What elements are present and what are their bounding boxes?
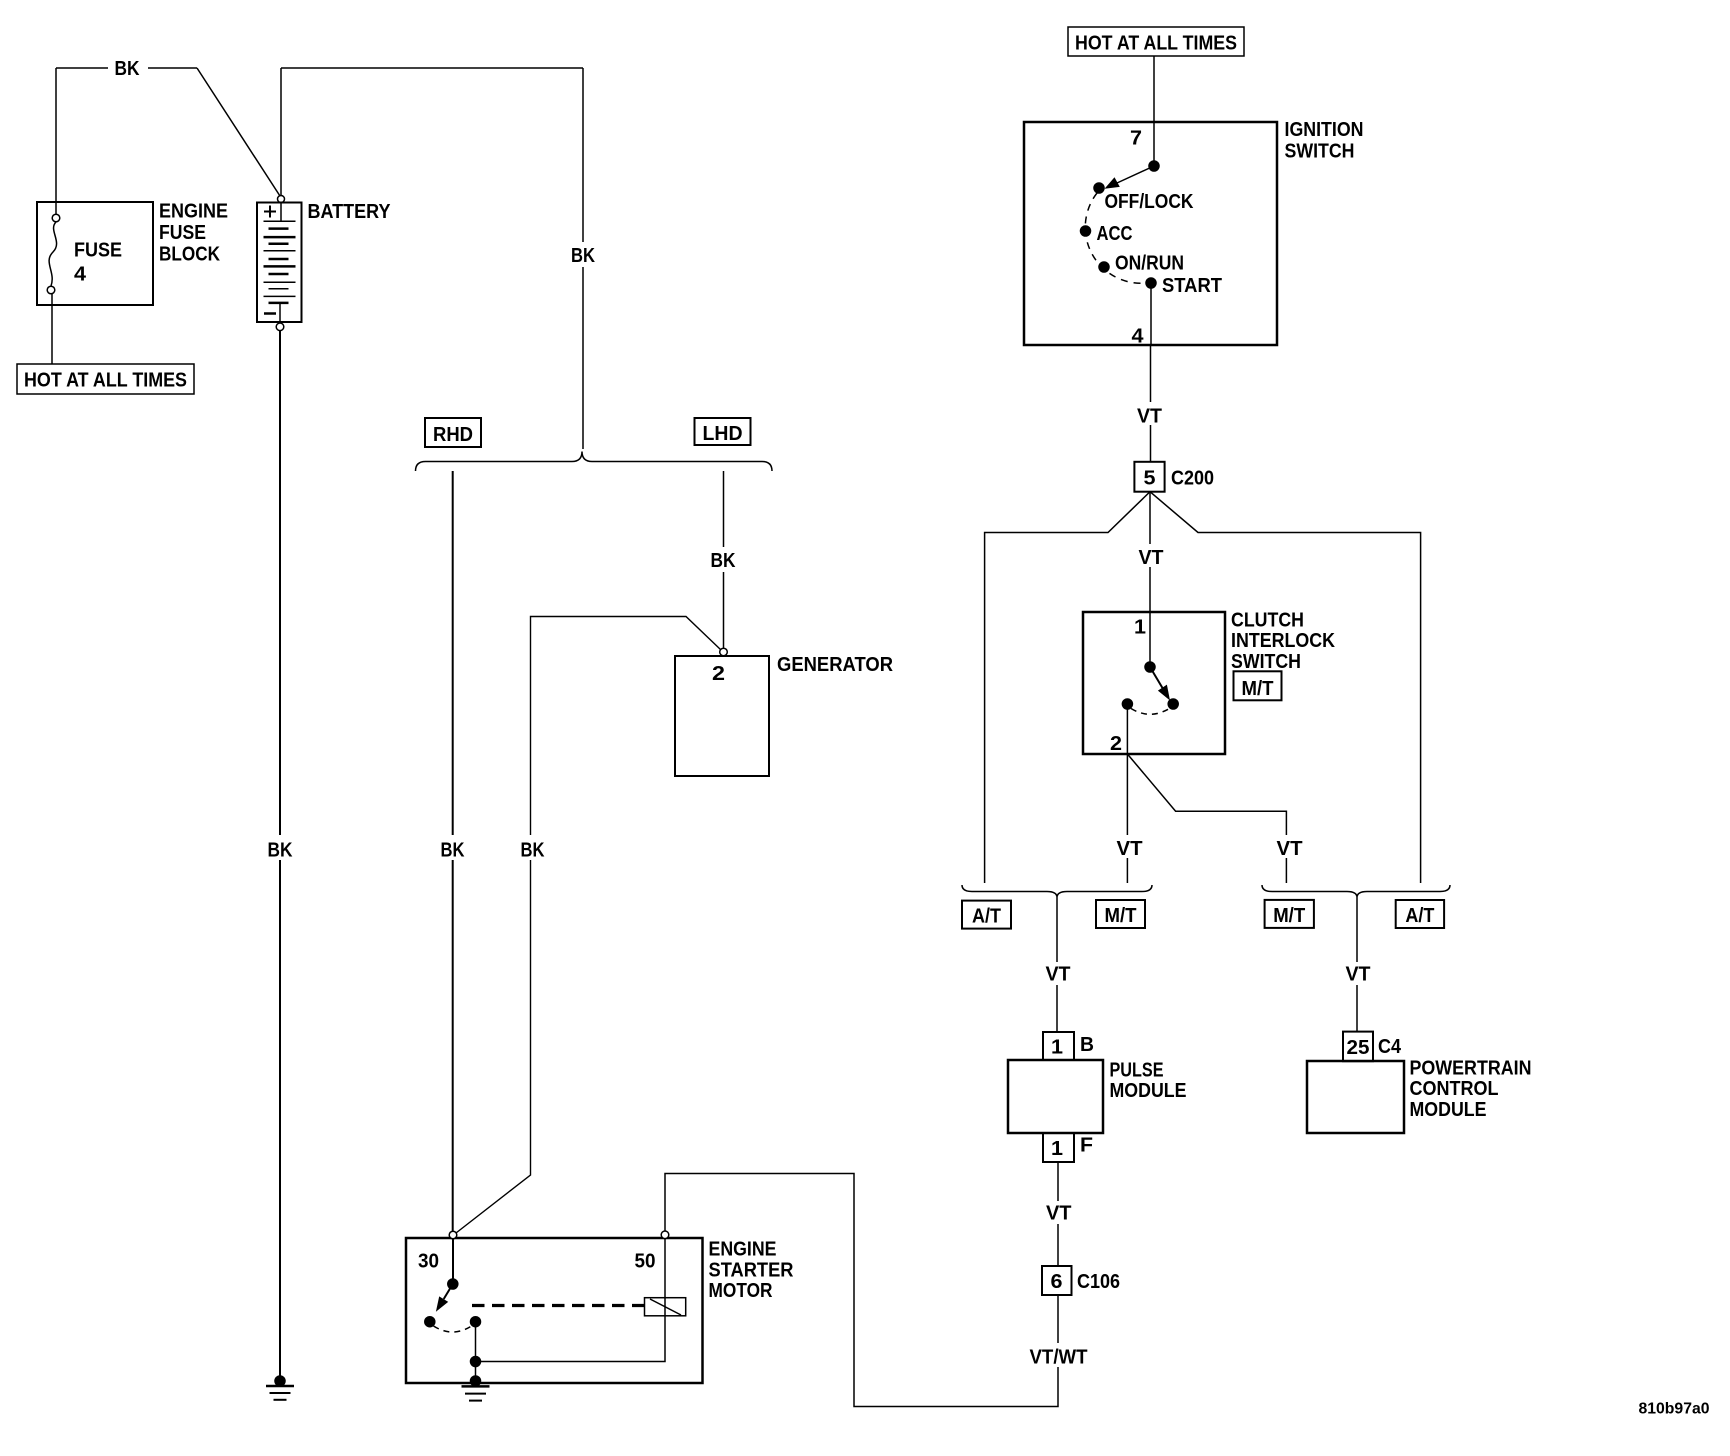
wire pulse module to C106 (1057, 1162, 1059, 1266)
svg-text:STARTER: STARTER (709, 1260, 795, 1282)
wire starter pin 50 internal (476, 1238, 666, 1362)
ignition travel dashed arc (1085, 193, 1147, 283)
connector C106 pin 6 (1042, 1266, 1072, 1295)
svg-text:4: 4 (74, 264, 87, 286)
svg-text:2: 2 (1110, 733, 1122, 755)
node starter contact top (448, 1279, 458, 1289)
svg-text:ACC: ACC (1097, 223, 1133, 245)
wire label VT clutch M/T (1112, 835, 1146, 858)
engine fuse block box (37, 202, 153, 305)
svg-text:POWERTRAIN: POWERTRAIN (1410, 1058, 1532, 1080)
svg-text:INTERLOCK: INTERLOCK (1231, 630, 1335, 652)
svg-text:C106: C106 (1077, 1271, 1120, 1293)
wire label BK RHD branch (435, 835, 471, 860)
wire right vertical drop to RHD/LHD brace (BK) (582, 68, 584, 449)
svg-text:A/T: A/T (1405, 905, 1434, 927)
wire label BK right drop (565, 242, 601, 267)
svg-text:LHD: LHD (703, 423, 743, 445)
wire top horizontal from battery positive to right drop (281, 67, 583, 69)
wire label BK top (108, 57, 148, 78)
svg-text:BK: BK (441, 840, 465, 862)
battery B1 (278, 196, 285, 203)
node M/T tag clutch (1234, 671, 1282, 700)
svg-text:C200: C200 (1171, 468, 1214, 490)
node M/T tag right (1265, 900, 1314, 928)
node starter fixed contact (471, 1317, 481, 1327)
node HOT AT ALL TIMES box top (1068, 27, 1244, 56)
wire START output to C200 (1150, 283, 1152, 345)
starter travel dashed arc (434, 1326, 472, 1332)
node starter junction (471, 1357, 481, 1367)
svg-text:PULSE: PULSE (1110, 1060, 1164, 1082)
svg-text:BATTERY: BATTERY (308, 201, 392, 223)
svg-text:2: 2 (712, 663, 725, 685)
svg-text:VT: VT (1346, 964, 1371, 986)
wire C200 left branch to A/T (985, 492, 1150, 883)
wire battery negative to ground (279, 331, 281, 1377)
node starter pin 30 terminal (449, 1231, 457, 1239)
node ignition common (1149, 161, 1159, 171)
wire label VT pcm feed (1341, 962, 1375, 985)
node ON/RUN contact (1099, 262, 1109, 272)
svg-text:SWITCH: SWITCH (1285, 141, 1355, 163)
wire starter pin 30 internal (452, 1238, 454, 1280)
svg-text:FUSE: FUSE (74, 240, 122, 262)
node A/T tag right (1396, 900, 1444, 928)
wire fuse to hot-at-all-times tag (51, 294, 53, 364)
svg-text:ENGINE: ENGINE (709, 1239, 777, 1261)
svg-text:VT/WT: VT/WT (1030, 1347, 1088, 1369)
svg-text:5: 5 (1144, 468, 1156, 490)
wire RHD branch down to starter pin 30 (452, 471, 454, 1232)
svg-text:VT: VT (1139, 547, 1164, 569)
generator (720, 648, 728, 656)
svg-text:M/T: M/T (1105, 905, 1137, 927)
wire fuse feed vertical (55, 68, 57, 214)
wire battery positive vertical stub (280, 68, 282, 195)
svg-text:SWITCH: SWITCH (1231, 651, 1301, 673)
clutch interlock switch box (1083, 612, 1225, 754)
svg-text:CLUTCH: CLUTCH (1231, 610, 1304, 632)
svg-text:M/T: M/T (1242, 678, 1274, 700)
svg-text:GENERATOR: GENERATOR (777, 654, 894, 676)
connector pin 25 C4 pcm (1343, 1032, 1373, 1062)
pulse module box (1008, 1060, 1103, 1133)
svg-text:MODULE: MODULE (1410, 1099, 1487, 1121)
wire hot feed into ignition switch pin 7 (1153, 56, 1155, 166)
svg-text:30: 30 (418, 1251, 439, 1273)
svg-text:OFF/LOCK: OFF/LOCK (1105, 191, 1194, 213)
svg-text:50: 50 (635, 1251, 656, 1273)
node starter moving contact (425, 1317, 435, 1327)
svg-text:25: 25 (1347, 1037, 1370, 1059)
wire clutch pin 2 to right M/T branch (1127, 754, 1286, 883)
svg-text:6: 6 (1051, 1271, 1063, 1293)
wire starter contact to ground (475, 1322, 477, 1381)
svg-text:CONTROL: CONTROL (1410, 1078, 1499, 1100)
wire label BK LHD branch (705, 547, 742, 572)
wire C200 to clutch interlock pin 1 (1149, 492, 1151, 662)
wire battery feed top-left horizontal (BK) (56, 67, 197, 69)
svg-text:A/T: A/T (972, 906, 1001, 928)
wire label VT below C200 (1134, 544, 1168, 567)
svg-text:VT: VT (1277, 838, 1303, 860)
svg-text:B: B (1080, 1034, 1094, 1056)
node START contact (1146, 278, 1156, 288)
svg-text:BK: BK (115, 58, 140, 80)
ground G2 starter (471, 1376, 481, 1386)
wire merged to powertrain control module (1356, 898, 1358, 1032)
node clutch moving contact (1168, 699, 1178, 709)
svg-text:BK: BK (571, 245, 595, 267)
svg-text:810b97a0: 810b97a0 (1639, 1401, 1710, 1418)
svg-text:ON/RUN: ON/RUN (1115, 253, 1184, 275)
wire diagonal from BK run to battery positive (197, 68, 280, 196)
wire C200 right branch to A/T (1150, 492, 1421, 883)
connector pin 1 B pulse module (1043, 1032, 1074, 1060)
powertrain control module box (1307, 1061, 1404, 1133)
node A/T tag left (962, 901, 1011, 929)
relay coil starter solenoid (645, 1298, 686, 1316)
node starter pin 50 terminal (661, 1231, 669, 1239)
svg-text:F: F (1080, 1135, 1093, 1157)
svg-text:MOTOR: MOTOR (709, 1280, 773, 1302)
svg-text:1: 1 (1051, 1037, 1063, 1059)
clutch travel dashed arc (1131, 709, 1170, 715)
svg-text:C4: C4 (1378, 1036, 1402, 1058)
engine starter motor box (406, 1238, 703, 1383)
node OFF/LOCK contact (1094, 183, 1104, 193)
svg-text:M/T: M/T (1273, 905, 1305, 927)
svg-text:RHD: RHD (433, 424, 473, 446)
brace RHD/LHD split (416, 452, 773, 472)
svg-text:BK: BK (268, 840, 293, 862)
node ACC contact (1081, 226, 1091, 236)
connector pin 1 F pulse module (1043, 1133, 1074, 1162)
wire clutch pin 2 down (1126, 709, 1128, 883)
svg-text:FUSE: FUSE (159, 222, 206, 244)
svg-text:7: 7 (1130, 128, 1142, 150)
wire LHD branch down to generator (723, 471, 725, 648)
wire label VT below pulse (1041, 1201, 1076, 1224)
svg-text:1: 1 (1134, 617, 1146, 639)
brace A/T-M/T merge left (962, 885, 1152, 898)
node fuse bottom terminal (47, 286, 55, 294)
node clutch pin 2 contact (1122, 699, 1132, 709)
ignition switch box (1024, 122, 1277, 345)
wire label VT/WT (1024, 1343, 1092, 1367)
svg-text:VT: VT (1046, 1203, 1072, 1225)
fuse FUSE 4 element (49, 222, 56, 286)
svg-text:HOT AT ALL TIMES: HOT AT ALL TIMES (24, 370, 187, 392)
wire label VT above C200 (1133, 402, 1167, 425)
svg-text:VT: VT (1046, 964, 1071, 986)
svg-text:IGNITION: IGNITION (1285, 119, 1364, 141)
node RHD tag (425, 418, 481, 447)
svg-text:BLOCK: BLOCK (159, 244, 220, 266)
connector C200 pin 5 (1134, 462, 1164, 492)
brace M/T-A/T merge right (1262, 885, 1450, 898)
starter wiper arrow (444, 1284, 453, 1299)
wire label BK generator branch (515, 835, 551, 860)
wire generator to starter pin 30 (456, 617, 721, 1234)
ground G1 battery (275, 1376, 285, 1386)
node LHD tag (695, 418, 751, 445)
svg-text:MODULE: MODULE (1110, 1080, 1187, 1102)
svg-text:VT: VT (1137, 406, 1162, 428)
node fuse top terminal (52, 214, 60, 222)
ignition wiper arrow (1117, 166, 1154, 183)
node HOT AT ALL TIMES box left (17, 364, 194, 394)
wire label VT pulse feed (1041, 962, 1075, 985)
wire merged to pulse module (1056, 898, 1058, 1033)
svg-text:4: 4 (1132, 326, 1145, 348)
node M/T tag left (1096, 900, 1145, 928)
svg-text:1: 1 (1051, 1138, 1063, 1160)
svg-text:HOT AT ALL TIMES: HOT AT ALL TIMES (1075, 33, 1237, 55)
svg-text:START: START (1162, 275, 1222, 297)
svg-text:ENGINE: ENGINE (159, 201, 228, 223)
svg-text:VT: VT (1117, 838, 1143, 860)
node clutch pin 1 contact (1145, 662, 1155, 672)
wire label BK battery negative (262, 835, 299, 860)
svg-text:BK: BK (521, 840, 545, 862)
svg-text:BK: BK (711, 550, 736, 572)
wire C106 to starter pin 50 (665, 1174, 1058, 1407)
wire label VT right M/T (1271, 835, 1305, 858)
relay coil engagement dashed link (472, 1304, 645, 1307)
clutch wiper arrow (1150, 667, 1163, 688)
